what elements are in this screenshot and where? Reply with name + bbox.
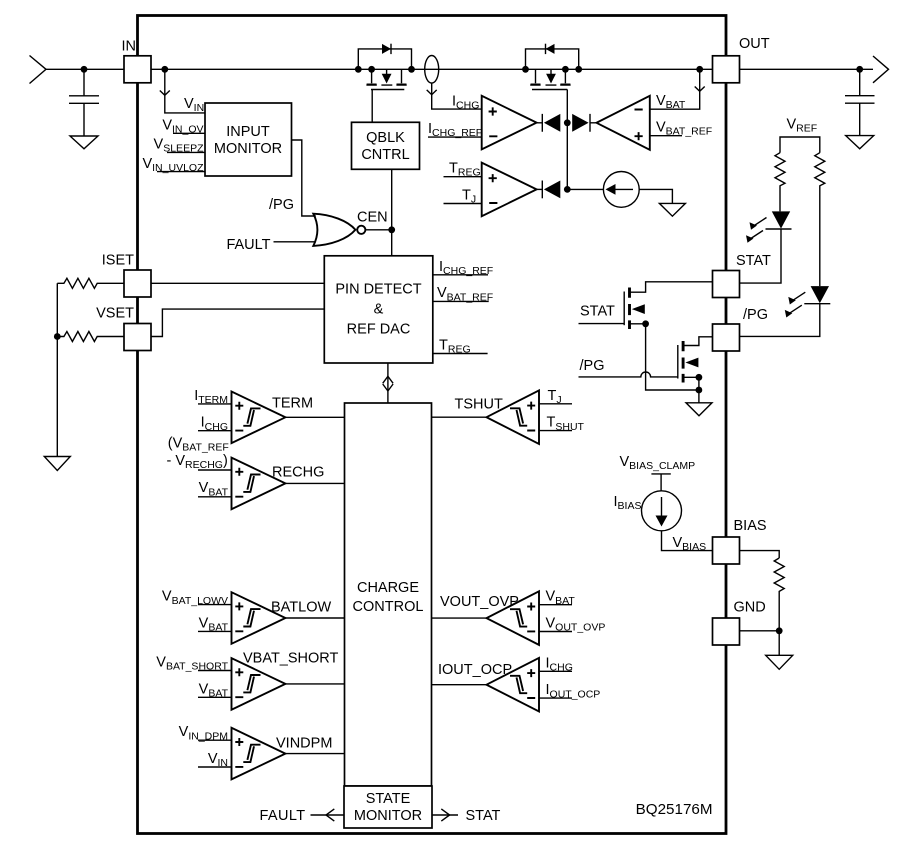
svg-text:TSHUT: TSHUT xyxy=(455,397,503,413)
transistor Q1 pass PMOS (left) xyxy=(355,44,415,123)
wire stub V_IN_UVLOZ xyxy=(157,171,205,173)
wire node to current source xyxy=(567,188,603,190)
node V_IN tap xyxy=(161,66,168,73)
wire Q1 body diode loop xyxy=(358,49,411,69)
wire VBAT_REF stub xyxy=(650,135,682,137)
svg-text:VSET: VSET xyxy=(96,306,134,322)
node GND/resistor xyxy=(776,627,783,634)
svg-text:VINDPM: VINDPM xyxy=(276,736,332,752)
block CHARGE CONTROL xyxy=(345,403,432,786)
diode Q1 body (points right) xyxy=(382,44,391,54)
wire BIAS to resistor xyxy=(740,551,780,558)
Q1 source/drain stubs and channel xyxy=(367,69,407,84)
capacitor C_IN xyxy=(69,69,99,136)
current sense oval xyxy=(425,56,439,84)
svg-text:TERM: TERM xyxy=(272,396,313,412)
/PG source xyxy=(683,377,699,403)
node Q2 drain stub xyxy=(562,66,569,73)
current source (TREG leg) xyxy=(603,172,639,208)
diode pair at gate node (upper) xyxy=(537,114,597,189)
Q1 body arrow (down) xyxy=(386,69,388,74)
op-amp VBAT error amp (points left) xyxy=(597,96,650,150)
wire current source to ground xyxy=(639,189,672,203)
node Q1 source stub xyxy=(368,66,375,73)
wire IN to PMOS pass FETs xyxy=(151,68,713,70)
block STATE MONITOR xyxy=(344,786,432,828)
node gate drive xyxy=(564,119,571,126)
node input cap junction xyxy=(81,66,88,73)
node CEN xyxy=(388,226,395,233)
wire /PG from INPUT MONITOR to NOR xyxy=(292,140,316,216)
svg-text:STAT: STAT xyxy=(580,304,615,320)
ground (BIAS) xyxy=(766,655,793,669)
svg-text:/PG: /PG xyxy=(269,197,294,213)
svg-text:STATE: STATE xyxy=(366,791,411,807)
svg-text:REF DAC: REF DAC xyxy=(347,322,411,338)
comparator IOUT_OCP xyxy=(432,658,573,712)
wire OUT to load xyxy=(740,68,874,70)
svg-text:CEN: CEN xyxy=(357,210,388,226)
resistor R_BIAS xyxy=(774,558,784,631)
svg-text:ISET: ISET xyxy=(102,253,134,269)
comparator TERM xyxy=(198,392,345,444)
ground (ISET/VSET) xyxy=(44,457,70,471)
node Q1 body-diode right xyxy=(408,66,415,73)
svg-text:CHARGE: CHARGE xyxy=(357,580,419,596)
svg-text:FAULT: FAULT xyxy=(226,237,270,253)
pin BIAS xyxy=(713,537,740,564)
Q2 source/drain stubs and channel xyxy=(531,69,571,84)
transistor Q2 pass PMOS (right) xyxy=(522,44,582,123)
STAT body arrow xyxy=(632,304,645,314)
wire clamp to current source xyxy=(660,474,662,491)
comparator VINDPM xyxy=(198,728,345,780)
wire T_J stub xyxy=(444,203,482,205)
node Q2 body-diode left xyxy=(522,66,529,73)
svg-text:MONITOR: MONITOR xyxy=(354,808,422,824)
wire output V_BAT_REF xyxy=(433,300,489,302)
resistor R_PG xyxy=(815,153,825,286)
pin GND xyxy=(713,618,740,645)
svg-text:QBLK: QBLK xyxy=(366,130,405,146)
INPUT MONITOR block xyxy=(205,103,292,176)
svg-text:OUT: OUT xyxy=(739,36,770,52)
LED STAT xyxy=(746,211,792,242)
ground (input cap) xyxy=(70,136,98,149)
wire /PG gate with hop xyxy=(579,372,678,377)
wire STAT gate xyxy=(579,323,625,325)
/PG channel xyxy=(682,341,685,383)
wire stub V_IN_OV xyxy=(173,132,205,134)
svg-text:FAULT: FAULT xyxy=(259,808,305,824)
node resistor common xyxy=(54,333,61,340)
svg-text:PIN DETECT: PIN DETECT xyxy=(335,282,421,298)
wire VBAT amp to OUT node with arrow xyxy=(650,69,700,109)
comparator TSHUT xyxy=(432,390,573,444)
svg-text:CONTROL: CONTROL xyxy=(353,599,424,615)
svg-text:BIAS: BIAS xyxy=(734,518,767,534)
svg-text:CNTRL: CNTRL xyxy=(361,147,409,163)
op-amp TREG thermal amp xyxy=(482,163,537,217)
transistor /PG NMOS xyxy=(579,337,713,403)
wire Q2 body diode loop xyxy=(526,49,579,69)
comparator BATLOW xyxy=(198,592,345,644)
wire node to ground xyxy=(778,631,780,656)
wire sense to ICHG amp with arrow xyxy=(432,83,482,109)
/PG body arrow xyxy=(685,358,698,368)
node output cap junction xyxy=(856,66,863,73)
svg-text:MONITOR: MONITOR xyxy=(214,141,282,157)
resistor R_ISET xyxy=(57,278,124,288)
transistor STAT NMOS xyxy=(579,282,713,390)
wire input to IN pin xyxy=(46,68,124,70)
svg-text:VBAT_SHORT: VBAT_SHORT xyxy=(243,651,338,667)
pin ISET xyxy=(124,270,151,297)
svg-text:BATLOW: BATLOW xyxy=(271,600,331,616)
capacitor C_OUT xyxy=(845,69,875,135)
STAT source xyxy=(630,324,699,390)
node /PG source xyxy=(696,374,703,381)
output arrow xyxy=(873,56,889,83)
wire VSET to PIN DETECT xyxy=(151,309,324,336)
wire V_REF rail xyxy=(780,137,820,153)
node Q1 body-diode left xyxy=(355,66,362,73)
/PG drain xyxy=(683,337,712,346)
wire ISET to PIN DETECT xyxy=(151,282,324,284)
Q1 gate xyxy=(371,90,404,123)
ground (TREG leg) xyxy=(659,203,685,216)
ground (STAT//PG) xyxy=(686,403,712,416)
comparator VOUT_OVP xyxy=(432,591,573,645)
wire ICHG_REF stub xyxy=(428,136,482,138)
clamp rail bar xyxy=(651,473,670,475)
wire current source to BIAS pin xyxy=(662,531,713,551)
svg-text:/PG: /PG xyxy=(580,358,605,374)
diode TREG (lower) xyxy=(537,181,604,199)
pin VSET xyxy=(124,324,151,351)
wire stub V_SLEEPZ xyxy=(167,151,205,153)
comparator VBAT_SHORT xyxy=(198,658,345,710)
op-amp ICHG error amp xyxy=(482,96,537,150)
wire resistors to ground xyxy=(56,283,58,456)
node STAT source xyxy=(642,320,649,327)
STAT channel xyxy=(628,288,631,330)
Q2 body arrow (down) xyxy=(550,69,552,74)
node Q2 body-diode right xyxy=(575,66,582,73)
Q2 gate xyxy=(532,90,567,124)
wire LED STAT to pin xyxy=(740,229,782,283)
wire FAULT output arrow xyxy=(311,814,345,816)
wire STAT output arrow xyxy=(432,814,458,816)
ground (output cap) xyxy=(846,136,874,149)
pin /PG xyxy=(713,324,740,351)
/PG gate bar xyxy=(677,345,679,379)
wire V_IN tap to INPUT MONITOR with arrow xyxy=(165,69,205,113)
node source common xyxy=(696,387,703,394)
pin IN xyxy=(124,56,151,83)
STAT gate bar xyxy=(623,292,625,326)
wire NOR output to CEN node xyxy=(365,229,391,231)
block QBLK CNTRL xyxy=(352,122,420,169)
current source I_BIAS xyxy=(642,491,682,531)
resistor R_VSET xyxy=(57,332,124,342)
wire LED /PG to pin xyxy=(740,304,820,337)
svg-text:BQ25176M: BQ25176M xyxy=(636,801,713,818)
STAT drain xyxy=(630,282,713,292)
node OUT tap xyxy=(696,66,703,73)
comparator RECHG xyxy=(198,458,345,510)
resistor R_STAT xyxy=(775,153,785,212)
svg-text:VOUT_OVP: VOUT_OVP xyxy=(440,594,519,610)
svg-text:INPUT: INPUT xyxy=(226,124,270,140)
wire gate node vertical xyxy=(566,123,568,190)
wire T_REG stub xyxy=(444,176,482,178)
svg-text:&: & xyxy=(374,302,384,318)
svg-text:STAT: STAT xyxy=(736,253,771,269)
svg-text:/PG: /PG xyxy=(743,307,768,323)
wire GND to resistor node xyxy=(740,630,780,632)
svg-text:IOUT_OCP: IOUT_OCP xyxy=(438,662,512,678)
wire FAULT input xyxy=(274,241,317,243)
block PIN DETECT & REF DAC xyxy=(324,256,433,363)
wire output T_REG xyxy=(433,353,488,355)
pin OUT xyxy=(713,56,740,83)
svg-text:IN: IN xyxy=(122,39,137,55)
pin STAT xyxy=(713,271,740,298)
svg-text:STAT: STAT xyxy=(466,808,501,824)
diode Q2 body (points left) xyxy=(546,44,555,54)
svg-text:GND: GND xyxy=(734,600,766,616)
svg-text:RECHG: RECHG xyxy=(272,465,324,481)
LED /PG xyxy=(785,286,831,317)
gate NOR (CE logic) xyxy=(313,214,365,246)
bidirectional arrow PIN DETECT to CHARGE CONTROL xyxy=(383,363,393,403)
wire QBLK to CEN node xyxy=(391,169,393,256)
node TREG diode xyxy=(564,186,571,193)
input source arrow xyxy=(30,56,47,84)
wire output I_CHG_REF xyxy=(433,274,488,276)
outer IC boundary box xyxy=(138,16,727,834)
